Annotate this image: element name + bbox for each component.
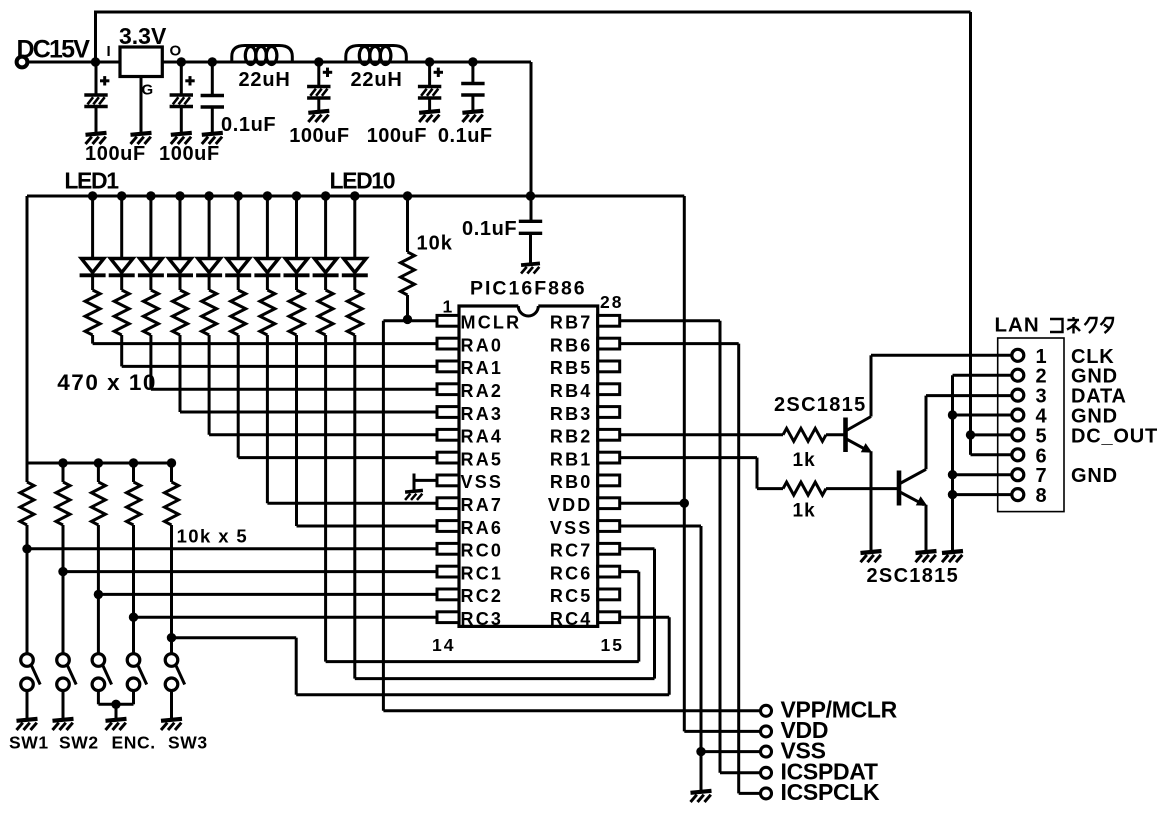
wire VDD pin to vertical xyxy=(619,502,685,505)
pin stub right RB6 xyxy=(598,338,620,349)
svg-text:DC15V: DC15V xyxy=(17,36,91,64)
wire VDD vertical xyxy=(683,196,686,731)
LAN pin 4 terminal xyxy=(1012,409,1024,421)
capacitor C5 100uF xyxy=(428,62,431,87)
wire left vertical VDD to pullup rail xyxy=(26,196,29,463)
svg-text:3: 3 xyxy=(1035,386,1046,408)
ground Q1 emitter xyxy=(861,551,882,562)
resistor R18 1k xyxy=(783,482,826,495)
wire R18 to Q2 base xyxy=(826,487,897,490)
svg-text:RA4: RA4 xyxy=(461,427,504,447)
wire RB2 to R17 xyxy=(619,433,783,436)
wire VPP/MCLR row xyxy=(383,709,759,712)
wire SW2 to ground xyxy=(62,691,65,720)
node VSS ICSP junction xyxy=(696,747,705,756)
ground C1 xyxy=(86,133,107,144)
pin stub right RB5 xyxy=(598,361,620,372)
svg-text:RB1: RB1 xyxy=(550,449,593,469)
svg-text:5: 5 xyxy=(1035,425,1046,447)
ground LAN gnd net xyxy=(942,551,963,562)
resistor 10k pullup ENC-B xyxy=(129,458,138,467)
LED1 with resistor xyxy=(88,191,97,200)
wire RB1 to R18 xyxy=(619,456,757,459)
node C5 junction xyxy=(425,57,434,66)
LAN pin 3 terminal xyxy=(1012,389,1024,401)
ground C3 xyxy=(202,133,223,144)
wire top 15V rail xyxy=(96,11,971,14)
switch ENC-B xyxy=(127,654,140,667)
svg-text:RB2: RB2 xyxy=(550,427,593,447)
pin stub left RC0 xyxy=(437,543,459,554)
resistor 10k pullup SW3 xyxy=(167,458,176,467)
svg-text:1k: 1k xyxy=(793,450,816,471)
svg-text:LED10: LED10 xyxy=(330,168,395,194)
capacitor C1 100uF input xyxy=(95,62,98,95)
node C2 junction xyxy=(177,57,186,66)
ground SW3 xyxy=(161,719,182,730)
wire regulator G pin xyxy=(140,77,143,134)
wire RB6 to ICSPCLK xyxy=(619,342,739,345)
pin stub left RA6 xyxy=(437,521,459,532)
LAN pin 6 terminal xyxy=(1012,449,1024,461)
svg-text:0.1uF: 0.1uF xyxy=(462,218,517,240)
terminal ICSPCLK xyxy=(761,788,772,799)
svg-text:G: G xyxy=(142,82,154,99)
capacitor C2 100uF xyxy=(180,62,183,95)
svg-text:I: I xyxy=(107,43,111,60)
pin stub right RC4 xyxy=(598,612,620,623)
svg-text:RC1: RC1 xyxy=(461,563,504,583)
svg-text:O: O xyxy=(170,43,182,60)
LAN pin 8 terminal xyxy=(1012,489,1024,501)
svg-text:1: 1 xyxy=(443,297,455,317)
svg-text:RB0: RB0 xyxy=(550,472,593,492)
resistor R11 10k MCLR pullup xyxy=(403,191,412,200)
wire SW3 to ground xyxy=(170,691,173,720)
node DC15V junction xyxy=(91,57,100,66)
wire VSS pin right xyxy=(619,525,701,528)
wire VPP vertical xyxy=(382,321,385,711)
wire DC15V input to regulator xyxy=(29,61,120,64)
svg-text:PIC16F886: PIC16F886 xyxy=(470,278,587,300)
svg-text:SW1: SW1 xyxy=(9,733,49,753)
transistor Q2 2SC1815 xyxy=(897,471,902,506)
terminal ICSPDAT xyxy=(761,767,772,778)
LAN pin 7 terminal xyxy=(1012,469,1024,481)
svg-text:RC6: RC6 xyxy=(550,563,593,583)
wire LAN pin7 gnd xyxy=(948,470,957,479)
svg-text:RA0: RA0 xyxy=(461,335,504,355)
capacitor C3 0.1uF xyxy=(211,62,214,96)
ground VSS ICSP xyxy=(691,791,712,802)
ground SW2 xyxy=(53,719,74,730)
resistor 10k pullup ENC-A xyxy=(94,458,103,467)
svg-text:10k x 5: 10k x 5 xyxy=(177,526,249,547)
wire Q1 collector to LAN pin1 xyxy=(871,354,1012,357)
svg-text:RC0: RC0 xyxy=(461,541,504,561)
pin stub left RA2 xyxy=(437,384,459,395)
svg-text:470 x 10: 470 x 10 xyxy=(57,370,157,395)
terminal VDD xyxy=(761,726,772,737)
svg-text:2SC1815: 2SC1815 xyxy=(867,565,960,587)
PIC16F886 U2 body xyxy=(459,306,598,626)
svg-text:RA6: RA6 xyxy=(461,518,504,538)
svg-text:100uF: 100uF xyxy=(159,143,220,165)
wire VDD rail xyxy=(27,195,684,198)
capacitor C7 0.1uF PIC decoupling xyxy=(519,220,542,223)
LED6 with resistor xyxy=(234,191,243,200)
svg-text:100uF: 100uF xyxy=(289,125,349,147)
svg-text:GND: GND xyxy=(1071,366,1118,388)
ground C5 xyxy=(419,111,440,122)
wire RB7 to ICSPDAT xyxy=(619,319,720,322)
wire row to RC1 xyxy=(63,570,437,573)
svg-text:RA7: RA7 xyxy=(461,495,504,515)
pin stub right RC7 xyxy=(598,543,620,554)
ground Q2 emitter xyxy=(916,551,937,562)
wire LAN pin6 xyxy=(969,435,972,455)
wire ICSPDAT xyxy=(720,771,760,774)
LED7 with resistor xyxy=(263,191,272,200)
svg-text:6: 6 xyxy=(1035,445,1046,467)
wire Q2 collector to LAN pin3 xyxy=(926,394,1012,397)
LED9 with resistor xyxy=(321,191,330,200)
wire LAN pin4 gnd xyxy=(948,410,957,419)
wire ICSPCLK xyxy=(739,792,760,795)
pin stub left RA4 xyxy=(437,429,459,440)
LAN connector box xyxy=(998,338,1064,512)
terminal VPP/MCLR xyxy=(761,705,772,716)
svg-text:3.3V: 3.3V xyxy=(119,23,167,49)
svg-text:RB7: RB7 xyxy=(550,313,593,333)
node VDD rail to 0.1uF xyxy=(526,191,535,200)
wire up from DC15V junction xyxy=(94,11,97,63)
regulator U1 3.3V xyxy=(120,47,162,77)
svg-text:RC4: RC4 xyxy=(550,609,593,629)
svg-text:22uH: 22uH xyxy=(239,69,291,91)
DC15V input terminal xyxy=(17,57,28,68)
svg-text:RA5: RA5 xyxy=(461,449,504,469)
ground ENC xyxy=(106,719,127,730)
ground SW1 xyxy=(17,719,38,730)
pin stub right RB3 xyxy=(598,407,620,418)
switch SW3 xyxy=(165,654,178,667)
pin stub left RA1 xyxy=(437,361,459,372)
svg-text:ICSPCLK: ICSPCLK xyxy=(781,779,881,805)
svg-text:RC3: RC3 xyxy=(461,609,504,629)
svg-text:RA2: RA2 xyxy=(461,381,504,401)
svg-text:22uH: 22uH xyxy=(351,69,403,91)
node VDD junction xyxy=(680,499,689,508)
resistor 10k pullup SW2 xyxy=(58,458,67,467)
LED2 with resistor xyxy=(117,191,126,200)
node C6 junction xyxy=(468,57,477,66)
svg-text:14: 14 xyxy=(432,635,455,655)
inductor L1 22uH xyxy=(232,46,292,63)
pin stub left RA7 xyxy=(437,498,459,509)
LAN pin 2 terminal xyxy=(1012,369,1024,381)
LAN pin 5 terminal xyxy=(1012,429,1024,441)
switch ENC-A xyxy=(92,654,105,667)
wire regulator output xyxy=(162,61,531,64)
wire R17 to Q1 base xyxy=(826,433,844,436)
ground VSS left pin xyxy=(414,479,437,482)
wire 3.3V feed down to LED rail xyxy=(530,62,533,221)
wire LAN pin5 DC_OUT xyxy=(966,430,975,439)
node C3 junction xyxy=(208,57,217,66)
wire SW3 to RC4 xyxy=(172,636,297,639)
svg-text:8: 8 xyxy=(1035,485,1046,507)
pin stub right RB1 xyxy=(598,452,620,463)
wire pullup rail xyxy=(27,462,172,465)
wire LAN pin8 gnd xyxy=(948,490,957,499)
svg-text:100uF: 100uF xyxy=(85,143,146,165)
svg-text:0.1uF: 0.1uF xyxy=(438,125,493,147)
svg-text:15: 15 xyxy=(601,635,624,655)
LAN pin 1 terminal xyxy=(1012,349,1024,361)
svg-text:ENC.: ENC. xyxy=(112,733,156,753)
svg-text:28: 28 xyxy=(600,292,623,312)
resistor R17 1k xyxy=(783,428,826,441)
pin stub left MCLR xyxy=(437,315,459,326)
pin stub left VSS xyxy=(437,475,459,486)
wire SW1 to ground xyxy=(26,691,29,720)
wire row to RC0 xyxy=(27,547,437,550)
wire ICSP VSS xyxy=(701,750,760,753)
svg-text:RB5: RB5 xyxy=(550,358,593,378)
svg-text:DATA: DATA xyxy=(1071,386,1127,408)
svg-text:RC7: RC7 xyxy=(550,541,593,561)
PIC notch xyxy=(518,303,538,309)
svg-text:GND: GND xyxy=(1071,406,1118,428)
pin stub right RB7 xyxy=(598,315,620,326)
svg-text:2: 2 xyxy=(1035,366,1046,388)
svg-text:4: 4 xyxy=(1035,406,1047,428)
ground C6 xyxy=(462,111,483,122)
wire right 15V vertical to LAN DC_OUT xyxy=(969,12,972,435)
svg-text:VSS: VSS xyxy=(550,518,593,538)
switch SW1 xyxy=(21,654,34,667)
svg-text:RA1: RA1 xyxy=(461,358,504,378)
inductor L2 22uH xyxy=(346,46,407,63)
svg-text:LAN: LAN xyxy=(995,314,1040,337)
wire ICSP VDD xyxy=(684,730,760,733)
wire row to RC3 xyxy=(134,616,438,619)
node C4 junction xyxy=(314,57,323,66)
svg-text:2SC1815: 2SC1815 xyxy=(774,394,867,416)
svg-text:SW2: SW2 xyxy=(59,733,99,753)
pin stub right VDD xyxy=(598,498,620,509)
svg-text:1k: 1k xyxy=(793,501,816,522)
ground C2 xyxy=(171,133,192,144)
svg-text:RC5: RC5 xyxy=(550,586,593,606)
svg-text:RA3: RA3 xyxy=(461,404,504,424)
switch SW2 xyxy=(57,654,70,667)
svg-text:CLK: CLK xyxy=(1071,346,1115,368)
wire ENC common xyxy=(97,691,100,705)
pin stub left RA0 xyxy=(437,338,459,349)
svg-text:RB6: RB6 xyxy=(550,335,593,355)
ground C4 xyxy=(308,111,329,122)
LED10 with resistor xyxy=(350,191,359,200)
svg-text:7: 7 xyxy=(1035,465,1046,487)
pin stub left RA5 xyxy=(437,452,459,463)
wire row to RC2 xyxy=(98,593,437,596)
pin stub right RC6 xyxy=(598,566,620,577)
svg-text:VSS: VSS xyxy=(461,472,504,492)
LED3 with resistor xyxy=(146,191,155,200)
pin stub right RC5 xyxy=(598,589,620,600)
LED5 with resistor xyxy=(204,191,213,200)
LED4 with resistor xyxy=(175,191,184,200)
svg-text:RB4: RB4 xyxy=(550,381,593,401)
svg-text:LED1: LED1 xyxy=(64,168,119,194)
svg-text:MCLR: MCLR xyxy=(461,313,522,333)
svg-text:0.1uF: 0.1uF xyxy=(221,114,276,136)
svg-text:GND: GND xyxy=(1071,465,1118,487)
svg-text:RB3: RB3 xyxy=(550,404,593,424)
wire MCLR to pin 1 xyxy=(383,319,437,322)
pin stub right RB0 xyxy=(598,475,620,486)
pin stub left RC2 xyxy=(437,589,459,600)
svg-text:100uF: 100uF xyxy=(367,125,427,147)
resistor 10k pullup SW1 xyxy=(26,463,29,482)
capacitor C4 100uF xyxy=(317,62,320,87)
LED8 with resistor xyxy=(292,191,301,200)
ground C7 xyxy=(521,263,540,273)
capacitor C6 0.1uF xyxy=(471,62,474,84)
node MCLR junction xyxy=(403,315,412,324)
pin stub right RB2 xyxy=(598,429,620,440)
svg-text:SW3: SW3 xyxy=(168,733,208,753)
pin stub left RC1 xyxy=(437,566,459,577)
svg-text:VDD: VDD xyxy=(548,495,593,515)
terminal VSS xyxy=(761,746,772,757)
ground regulator G xyxy=(131,133,152,144)
pin stub left RA3 xyxy=(437,407,459,418)
pin stub left RC3 xyxy=(437,612,459,623)
transistor Q1 2SC1815 xyxy=(843,418,848,453)
svg-text:RC2: RC2 xyxy=(461,586,504,606)
pin stub right VSS xyxy=(598,521,620,532)
svg-text:10k: 10k xyxy=(417,233,453,255)
pin stub right RB4 xyxy=(598,384,620,395)
svg-text:DC_OUT: DC_OUT xyxy=(1071,425,1158,447)
svg-text:1: 1 xyxy=(1035,346,1046,368)
wire LAN pin2 gnd xyxy=(953,374,1012,377)
